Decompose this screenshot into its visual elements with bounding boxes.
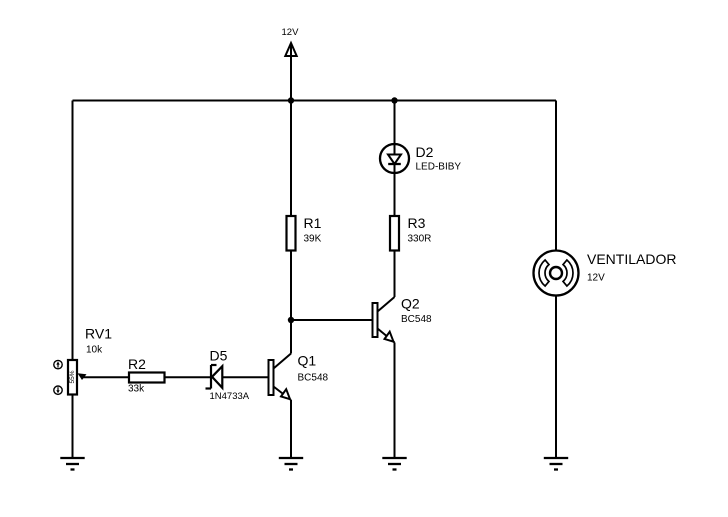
svg-text:R2: R2 (128, 356, 146, 372)
ground RV1 (60, 458, 84, 470)
motor VENTILADOR (534, 251, 677, 296)
svg-text:330R: 330R (408, 234, 432, 245)
wire D5 to Q1 base (222, 376, 268, 378)
node junction bus-D2 (391, 97, 397, 103)
svg-text:R1: R1 (304, 215, 322, 231)
resistor R2 (128, 356, 165, 395)
ground Q1 (279, 458, 303, 470)
svg-text:BC548: BC548 (401, 314, 432, 325)
wire R1 to node (290, 251, 292, 321)
svg-text:D5: D5 (210, 348, 228, 364)
power 12V (282, 27, 300, 56)
svg-text:Q1: Q1 (298, 353, 317, 369)
transistor Q1 (269, 353, 329, 401)
wire bus to R1 (290, 101, 292, 217)
svg-text:LED-BIBY: LED-BIBY (416, 162, 462, 173)
annotation arrow down (54, 386, 62, 394)
wiper arrow RV1 (78, 373, 87, 380)
svg-text:BC548: BC548 (298, 373, 329, 384)
diode D2 LED (380, 144, 461, 173)
transistor Q2 (373, 296, 433, 343)
svg-text:R3: R3 (408, 215, 426, 231)
wire left rail (72, 101, 74, 361)
svg-text:33k: 33k (128, 384, 145, 395)
wire R3 to Q2 collector (394, 251, 396, 298)
svg-text:39K: 39K (304, 234, 322, 245)
svg-text:12V: 12V (282, 27, 300, 38)
svg-text:Q2: Q2 (401, 296, 420, 312)
diode D5 zener (206, 348, 250, 403)
wire 12V stem (290, 44, 292, 101)
ground Q2 (382, 458, 406, 470)
svg-text:VENTILADOR: VENTILADOR (587, 251, 676, 267)
wire Q1 emitter to ground (290, 400, 292, 458)
svg-text:RV1: RV1 (85, 326, 112, 342)
wire RV1 to ground (72, 395, 74, 459)
potentiometer RV1 (68, 326, 112, 395)
wire motor to ground (555, 295, 557, 458)
svg-text:55%: 55% (69, 370, 76, 383)
wire top bus (73, 100, 557, 102)
svg-text:1N4733A: 1N4733A (210, 391, 250, 402)
node junction bus-R1 (288, 97, 294, 103)
resistor R1 (287, 215, 322, 251)
wire R2 to D5 (165, 376, 211, 378)
wire bus to motor (555, 101, 557, 251)
node junction R1-Q2base-Q1coll (288, 317, 294, 323)
svg-text:10k: 10k (86, 345, 103, 356)
annotation arrow up (54, 360, 62, 368)
resistor R3 (390, 215, 431, 251)
ground motor (544, 458, 568, 470)
wire Q2 emitter to ground (394, 343, 396, 459)
svg-text:12V: 12V (587, 273, 605, 284)
wire Q1 collector (290, 320, 292, 354)
wire Q2 base (291, 319, 373, 321)
svg-text:D2: D2 (416, 144, 434, 160)
wire bus to D2 (394, 101, 396, 217)
wire wiper to R2 (83, 376, 129, 378)
